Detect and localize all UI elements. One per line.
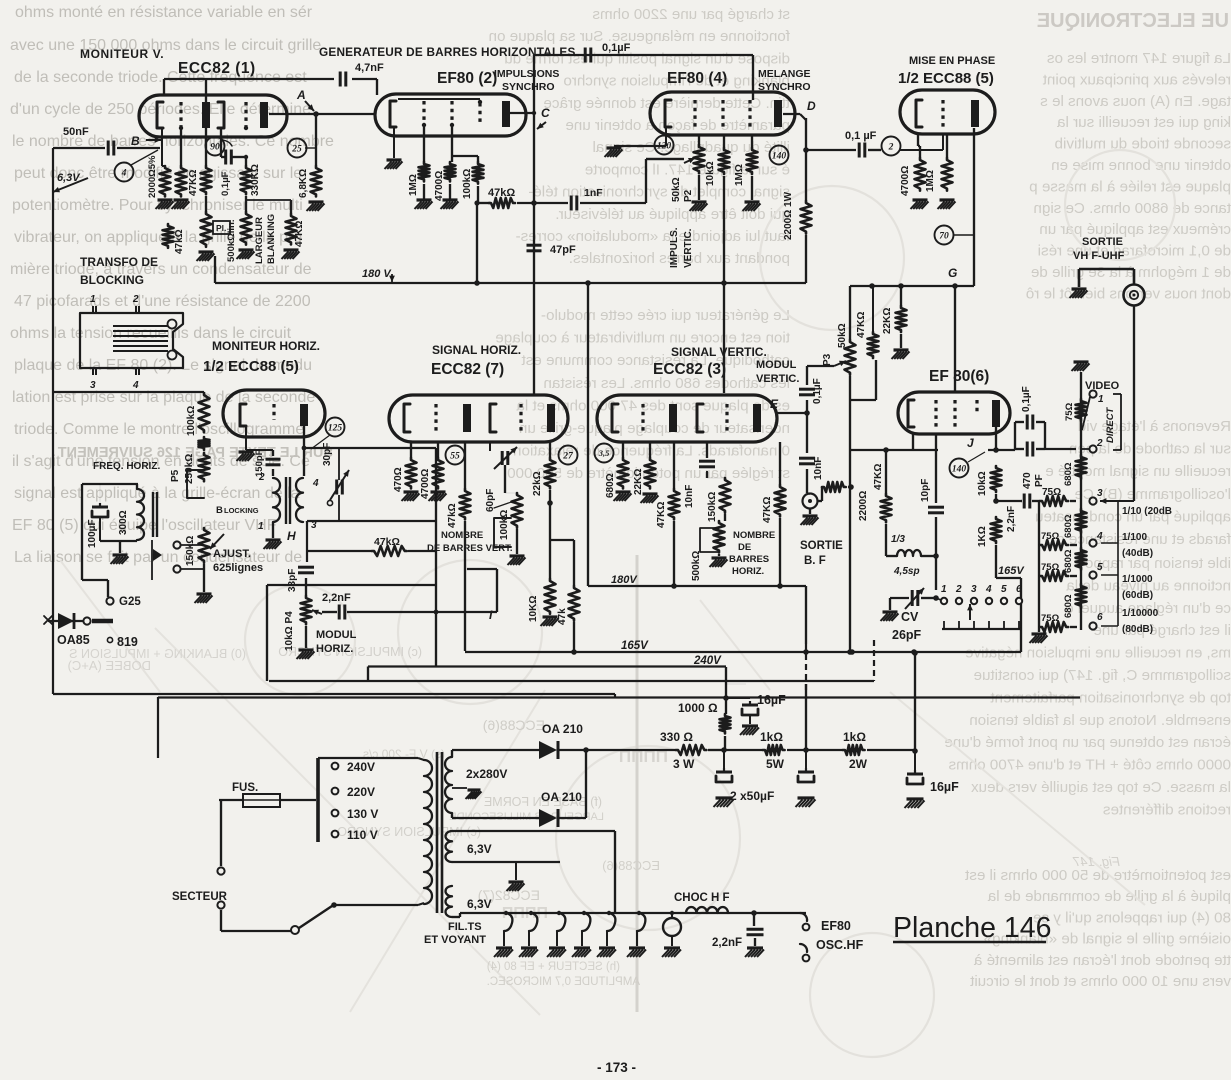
svg-text:250kΩ: 250kΩ xyxy=(184,454,195,484)
svg-text:TRANSFO DE: TRANSFO DE xyxy=(80,255,158,269)
svg-text:vers une 10 000 ohms et do: vers une 10 000 ohms et dont le circuit xyxy=(969,973,1231,990)
svg-text:2x280V: 2x280V xyxy=(466,767,507,781)
svg-text:ECC82 (7): ECC82 (7) xyxy=(431,361,504,378)
svg-text:2: 2 xyxy=(955,584,962,595)
svg-text:seconde triode du multiv: seconde triode du multivib xyxy=(1055,136,1231,153)
svg-text:4: 4 xyxy=(312,478,319,489)
svg-text:10nF: 10nF xyxy=(813,457,824,480)
svg-text:4700Ω: 4700Ω xyxy=(900,166,911,196)
svg-text:IMPULSIONS: IMPULSIONS xyxy=(494,68,559,80)
svg-text:75Ω: 75Ω xyxy=(1041,562,1060,573)
svg-text:Le générateur qui crée cet: Le générateur qui crée cette modulo- xyxy=(541,307,790,324)
svg-text:st chargé par une 2200 oh: st chargé par une 2200 ohms xyxy=(592,6,790,23)
svg-text:680Ω: 680Ω xyxy=(605,473,616,498)
svg-text:5W: 5W xyxy=(766,757,785,771)
svg-text:47KΩ: 47KΩ xyxy=(873,464,884,490)
svg-text:ECC82 (1): ECC82 (1) xyxy=(178,60,256,77)
svg-text:(h) SECTEUR + EF 80 (4): (h) SECTEUR + EF 80 (4) xyxy=(487,961,620,973)
svg-text:1/10 (20dB: 1/10 (20dB xyxy=(1122,506,1172,517)
svg-text:3: 3 xyxy=(971,584,977,595)
svg-text:é sur la figure 147. Il: é sur la figure 147. Il comporte xyxy=(585,161,790,178)
svg-text:A: A xyxy=(296,88,306,102)
svg-text:680Ω: 680Ω xyxy=(1063,462,1074,486)
svg-text:est potentiomètre de 50 000: est potentiomètre de 50 000 ohms il est xyxy=(964,867,1231,884)
svg-text:MISE EN PHASE: MISE EN PHASE xyxy=(909,55,995,67)
svg-text:2: 2 xyxy=(1096,438,1103,449)
svg-text:47pF: 47pF xyxy=(550,244,576,256)
svg-text:50nF: 50nF xyxy=(63,126,89,138)
svg-text:1: 1 xyxy=(258,521,264,532)
svg-text:SIGNAL VERTIC.: SIGNAL VERTIC. xyxy=(671,345,767,359)
svg-text:165V: 165V xyxy=(998,565,1025,577)
svg-text:50kΩ: 50kΩ xyxy=(671,177,682,202)
svg-text:2,2nF: 2,2nF xyxy=(322,592,351,604)
svg-text:MONITEUR HORIZ.: MONITEUR HORIZ. xyxy=(212,339,320,353)
svg-text:FREQ. HORIZ.: FREQ. HORIZ. xyxy=(93,461,160,472)
svg-text:47k: 47k xyxy=(557,608,568,625)
svg-text:1/10000: 1/10000 xyxy=(1122,608,1159,619)
svg-text:VERTIC.: VERTIC. xyxy=(756,373,799,385)
svg-text:(40dB): (40dB) xyxy=(1122,548,1153,559)
svg-text:165V: 165V xyxy=(621,640,649,652)
svg-text:470Ω: 470Ω xyxy=(393,467,404,492)
svg-text:180 V: 180 V xyxy=(362,268,392,280)
svg-text:king qui est recueilli sur la: king qui est recueilli sur la xyxy=(1057,114,1231,131)
svg-text:La figure 147 montre les os: La figure 147 montre les os xyxy=(1047,50,1231,67)
svg-text:10pF: 10pF xyxy=(920,479,931,502)
svg-text:4: 4 xyxy=(985,584,992,595)
svg-text:LOCKING: LOCKING xyxy=(224,506,259,515)
svg-text:EF80 (4): EF80 (4) xyxy=(667,70,727,87)
svg-text:ible tension par rappo: ible tension par rappo xyxy=(1085,555,1231,572)
svg-text:J: J xyxy=(967,436,974,450)
svg-text:2: 2 xyxy=(888,142,894,152)
svg-text:500kΩlin.: 500kΩlin. xyxy=(226,220,237,262)
svg-text:tance de 6800 ohms. Ce sign: tance de 6800 ohms. Ce sign xyxy=(1033,200,1231,217)
svg-text:illité du quadrillage. Ce: illité du quadrillage. Ce signal xyxy=(592,139,790,156)
svg-text:300Ω: 300Ω xyxy=(118,510,129,535)
svg-text:2: 2 xyxy=(132,294,139,305)
svg-text:MODUL: MODUL xyxy=(756,359,797,371)
svg-text:dont nous verrons bientôt le r: dont nous verrons bientôt le rô xyxy=(1026,285,1231,302)
svg-text:1MΩ: 1MΩ xyxy=(925,170,936,192)
svg-text:1MΩ: 1MΩ xyxy=(734,164,745,186)
svg-text:2,2nF: 2,2nF xyxy=(712,937,742,949)
svg-text:AJUST.: AJUST. xyxy=(213,548,251,560)
svg-text:plaque est reliée à la masse p: plaque est reliée à la masse p xyxy=(1029,178,1231,195)
svg-text:BLANKING: BLANKING xyxy=(266,214,277,264)
svg-text:DIRECT: DIRECT xyxy=(1105,406,1116,443)
svg-text:B. F: B. F xyxy=(804,555,826,567)
svg-text:ECC88(6): ECC88(6) xyxy=(602,858,660,873)
svg-text:BARRES: BARRES xyxy=(729,554,769,565)
svg-text:680Ω: 680Ω xyxy=(1063,594,1074,618)
svg-text:0,1µF: 0,1µF xyxy=(602,42,631,54)
svg-text:10nF: 10nF xyxy=(684,485,695,508)
svg-text:0 nanofarads. La fréquence de: 0 nanofarads. La fréquence de relaxation xyxy=(513,443,790,460)
svg-text:1kΩ: 1kΩ xyxy=(760,730,783,744)
svg-text:1MΩ: 1MΩ xyxy=(408,174,419,196)
svg-text:de la seconde triode. Cette fr: de la seconde triode. Cette fréquence es… xyxy=(14,69,307,86)
svg-text:180V: 180V xyxy=(611,574,638,586)
svg-text:scillogramme C, fig. 147): scillogramme C, fig. 147) qui constitue xyxy=(974,667,1231,684)
svg-text:rections différentes: rections différentes xyxy=(1103,801,1231,818)
svg-text:DE BARRES VERT.: DE BARRES VERT. xyxy=(427,543,513,554)
svg-text:125: 125 xyxy=(328,423,343,433)
svg-text:MONITEUR V.: MONITEUR V. xyxy=(80,47,164,61)
svg-text:faut lui adjoindre la «modulat: faut lui adjoindre la «modulation» corre… xyxy=(516,228,790,245)
svg-text:B: B xyxy=(131,134,140,148)
svg-text:1: 1 xyxy=(1098,394,1104,405)
svg-text:HORIZ.: HORIZ. xyxy=(732,566,764,577)
svg-text:22KΩ: 22KΩ xyxy=(882,308,893,334)
svg-text:33pF: 33pF xyxy=(287,569,298,592)
svg-text:Fig. 147: Fig. 147 xyxy=(1072,854,1120,869)
svg-text:47KΩ: 47KΩ xyxy=(188,170,199,196)
svg-text:500kΩ: 500kΩ xyxy=(691,551,702,581)
svg-text:CHOC H F: CHOC H F xyxy=(674,892,730,904)
svg-text:47 picofarads et d'une résista: 47 picofarads et d'une résistance de 220… xyxy=(14,293,311,310)
svg-text:FUS.: FUS. xyxy=(232,782,258,794)
svg-text:tte pentode dont l'écran e: tte pentode dont l'écran est alimenté à xyxy=(973,952,1231,969)
svg-text:OA 210: OA 210 xyxy=(542,722,583,736)
svg-text:3: 3 xyxy=(90,380,96,391)
svg-text:1kΩ: 1kΩ xyxy=(843,730,866,744)
svg-text:LARGEUR: LARGEUR xyxy=(254,217,265,264)
svg-text:10kΩ P4: 10kΩ P4 xyxy=(284,611,295,651)
svg-text:G25: G25 xyxy=(119,596,141,608)
svg-text:CV: CV xyxy=(901,610,919,624)
svg-text:(0) BLANKING + IMPULSION S: (0) BLANKING + IMPULSION S xyxy=(69,647,246,661)
svg-text:75Ω: 75Ω xyxy=(1042,487,1061,498)
svg-text:3: 3 xyxy=(1097,488,1103,499)
svg-text:écran est obtenue par un pont: écran est obtenue par un pont formé d'un… xyxy=(944,734,1231,751)
svg-text:1/3: 1/3 xyxy=(891,534,905,545)
svg-text:SORTIE: SORTIE xyxy=(800,540,843,552)
svg-text:GENERATEUR DE BARRES HORIZO: GENERATEUR DE BARRES HORIZONTALES xyxy=(319,45,576,59)
svg-text:1KΩ: 1KΩ xyxy=(977,526,988,547)
svg-text:DE: DE xyxy=(738,542,751,553)
svg-text:240V: 240V xyxy=(347,760,375,774)
svg-text:47kΩ: 47kΩ xyxy=(488,187,515,199)
svg-text:2W: 2W xyxy=(849,757,868,771)
svg-text:(60dB): (60dB) xyxy=(1122,590,1153,601)
svg-text:16µF: 16µF xyxy=(930,780,959,794)
svg-text:MODUL: MODUL xyxy=(316,629,357,641)
svg-text:1nF: 1nF xyxy=(584,187,603,199)
svg-text:Revenons à l'étage vid: Revenons à l'étage vid xyxy=(1078,418,1231,435)
svg-text:625lignes: 625lignes xyxy=(213,562,263,574)
svg-text:relevés aux principaux point: relevés aux principaux point xyxy=(1042,71,1231,88)
svg-text:47KΩ: 47KΩ xyxy=(294,221,305,247)
svg-text:paramètre de façon à obten: paramètre de façon à obtenir une xyxy=(565,117,790,134)
svg-text:B: B xyxy=(216,505,223,516)
svg-text:1/1000: 1/1000 xyxy=(1122,574,1153,585)
svg-text:140: 140 xyxy=(952,464,967,474)
svg-text:ECC82 (3): ECC82 (3) xyxy=(653,361,726,378)
svg-text:signal complet de synchronisat: signal complet de synchronisation télé- xyxy=(528,184,790,201)
svg-text:Planche 146: Planche 146 xyxy=(893,912,1051,944)
svg-text:VH F-UHF: VH F-UHF xyxy=(1073,250,1125,262)
svg-text:SUR LE TEXTE PAGE 126 SUIVREME: SUR LE TEXTE PAGE 126 SUIVREMENT xyxy=(58,445,333,461)
svg-text:fonctionne en mélangeuse. Sur: fonctionne en mélangeuse. Sur sa plaque … xyxy=(489,28,790,45)
svg-text:OSC.HF: OSC.HF xyxy=(816,938,864,952)
svg-text:4: 4 xyxy=(1096,531,1103,542)
svg-text:EF80 (2): EF80 (2) xyxy=(437,70,497,87)
svg-text:22KΩ: 22KΩ xyxy=(633,469,644,495)
svg-text:P2: P2 xyxy=(683,189,694,202)
svg-text:100kΩ: 100kΩ xyxy=(462,169,473,199)
svg-text:1/2 ECC88 (5): 1/2 ECC88 (5) xyxy=(203,358,299,375)
svg-text:6: 6 xyxy=(1016,584,1022,595)
svg-text:140: 140 xyxy=(772,151,787,161)
svg-text:1: 1 xyxy=(941,584,947,595)
svg-text:25: 25 xyxy=(291,144,302,154)
svg-text:G: G xyxy=(948,266,957,280)
svg-text:3,5: 3,5 xyxy=(598,448,610,458)
svg-text:4,5sp: 4,5sp xyxy=(893,566,920,577)
svg-text:1/2 ECC88 (5): 1/2 ECC88 (5) xyxy=(898,70,994,87)
svg-text:10kΩ: 10kΩ xyxy=(977,471,988,496)
svg-text:330KΩ: 330KΩ xyxy=(250,164,261,196)
svg-text:ECC88(6): ECC88(6) xyxy=(483,717,545,733)
svg-text:pliqué à la grille de com: pliqué à la grille de commande de la xyxy=(987,888,1231,905)
svg-text:NOMBRE: NOMBRE xyxy=(441,530,483,541)
svg-text:30pF: 30pF xyxy=(322,443,333,466)
svg-text:47kΩ: 47kΩ xyxy=(174,229,185,254)
svg-text:120: 120 xyxy=(657,141,672,151)
svg-text:130 V: 130 V xyxy=(347,807,378,821)
svg-text:C: C xyxy=(541,106,550,120)
svg-text:SORTIE: SORTIE xyxy=(1082,236,1123,248)
svg-text:680Ω: 680Ω xyxy=(1063,549,1074,573)
svg-text:0,1µF: 0,1µF xyxy=(1021,386,1032,412)
svg-text:P5: P5 xyxy=(170,469,181,482)
svg-text:H: H xyxy=(287,529,296,543)
svg-text:0,1 µF: 0,1 µF xyxy=(845,130,877,142)
svg-text:47KΩ: 47KΩ xyxy=(656,502,667,528)
svg-text:SIGNAL HORIZ.: SIGNAL HORIZ. xyxy=(432,343,521,357)
svg-text:0,1µF: 0,1µF xyxy=(812,378,823,404)
svg-text:1000 Ω: 1000 Ω xyxy=(678,701,718,715)
svg-text:22kΩ: 22kΩ xyxy=(532,471,543,496)
svg-text:SYNCHRO: SYNCHRO xyxy=(502,81,555,93)
svg-text:OA85: OA85 xyxy=(57,633,90,647)
svg-text:150kΩ: 150kΩ xyxy=(185,536,196,566)
svg-text:EF80: EF80 xyxy=(821,919,851,933)
svg-text:50kΩ: 50kΩ xyxy=(837,323,848,348)
svg-text:la masse. Ce top est aigu: la masse. Ce top est aiguillé vers deux xyxy=(971,779,1231,796)
svg-text:5: 5 xyxy=(1001,584,1007,595)
svg-text:16µF: 16µF xyxy=(757,693,786,707)
svg-text:- 173 -: - 173 - xyxy=(597,1060,636,1075)
svg-text:80 (4) qui rappelons qu'il: 80 (4) qui rappelons qu'il y se xyxy=(1033,909,1231,926)
svg-text:75Ω: 75Ω xyxy=(1041,613,1060,624)
svg-text:de 1 mégohm à la 3e grille de: de 1 mégohm à la 3e grille de xyxy=(1031,264,1231,281)
svg-text:2200Ω 1W: 2200Ω 1W xyxy=(783,191,794,240)
svg-text:IMPULS.: IMPULS. xyxy=(669,227,680,268)
svg-text:6: 6 xyxy=(1097,612,1103,623)
svg-text:UE ELECTRONIQUE: UE ELECTRONIQUE xyxy=(1037,10,1229,32)
svg-text:4700Ω: 4700Ω xyxy=(420,469,431,499)
svg-text:tage. En (A) nous avons le s: tage. En (A) nous avons le s xyxy=(1040,93,1231,110)
svg-text:NOMBRE: NOMBRE xyxy=(733,530,775,541)
svg-text:10KΩ: 10KΩ xyxy=(528,596,539,622)
svg-text:75Ω: 75Ω xyxy=(1064,402,1075,421)
svg-text:PF: PF xyxy=(1034,474,1045,487)
svg-text:4: 4 xyxy=(132,380,139,391)
svg-text:il est chargé par une: il est chargé par une xyxy=(1093,622,1231,639)
svg-text:OA 210: OA 210 xyxy=(541,790,582,804)
svg-text:100kΩ: 100kΩ xyxy=(186,406,197,436)
svg-text:90: 90 xyxy=(210,142,220,152)
svg-text:MELANGE: MELANGE xyxy=(758,68,811,80)
svg-text:75Ω: 75Ω xyxy=(1041,531,1060,542)
svg-text:EF 80(6): EF 80(6) xyxy=(929,368,989,385)
svg-text:2200Ω: 2200Ω xyxy=(858,491,869,521)
svg-text:VIDEO: VIDEO xyxy=(1085,380,1120,392)
svg-text:6,3V: 6,3V xyxy=(467,897,492,911)
svg-text:HORIZ.: HORIZ. xyxy=(316,643,353,655)
svg-text:100µF: 100µF xyxy=(87,519,98,548)
svg-text:47KΩ: 47KΩ xyxy=(762,497,773,523)
svg-text:FIL.TS: FIL.TS xyxy=(448,921,482,933)
svg-text:10kΩ: 10kΩ xyxy=(705,161,716,186)
svg-text:70: 70 xyxy=(939,231,949,241)
svg-text:(80dB): (80dB) xyxy=(1122,624,1153,635)
svg-text:SECTEUR: SECTEUR xyxy=(172,891,228,903)
svg-text:2: 2 xyxy=(258,472,265,483)
svg-text:ensemble. Notons que la fa: ensemble. Notons que la faible tension xyxy=(969,712,1231,729)
svg-text:D: D xyxy=(807,99,816,113)
svg-text:ohms monté en résistance varia: ohms monté en résistance variable en sér xyxy=(15,4,313,21)
svg-text:3 W: 3 W xyxy=(673,757,695,771)
svg-text:2000Ω5%: 2000Ω5% xyxy=(147,155,158,198)
svg-text:4700Ω: 4700Ω xyxy=(434,171,445,201)
svg-text:obtenir une bonne mise: obtenir une bonne mise en xyxy=(1051,157,1231,174)
svg-text:4,7nF: 4,7nF xyxy=(355,62,384,74)
svg-text:47KΩ: 47KΩ xyxy=(856,312,867,338)
svg-text:0,1µF: 0,1µF xyxy=(220,171,231,196)
svg-text:330 Ω: 330 Ω xyxy=(660,730,693,744)
svg-text:110 V: 110 V xyxy=(347,828,378,842)
svg-text:ET VOYANT: ET VOYANT xyxy=(424,934,486,946)
svg-text:220V: 220V xyxy=(347,785,375,799)
svg-text:470: 470 xyxy=(1022,472,1033,489)
svg-text:2 x50µF: 2 x50µF xyxy=(730,789,774,803)
svg-text:240V: 240V xyxy=(693,655,722,667)
svg-text:1/100: 1/100 xyxy=(1122,532,1147,543)
svg-text:150kΩ: 150kΩ xyxy=(707,492,718,522)
svg-text:2,2nF: 2,2nF xyxy=(1006,506,1017,532)
svg-text:819: 819 xyxy=(117,635,138,649)
svg-text:100kΩ: 100kΩ xyxy=(499,510,510,540)
svg-text:47kΩ: 47kΩ xyxy=(374,536,400,548)
svg-text:AMPLITUDE 0,7 MICROSEC.: AMPLITUDE 0,7 MICROSEC. xyxy=(487,976,640,988)
svg-text:5: 5 xyxy=(1097,562,1103,573)
svg-text:47kΩ: 47kΩ xyxy=(447,503,458,528)
svg-text:Pl.: Pl. xyxy=(216,223,226,233)
svg-text:26pF: 26pF xyxy=(892,628,922,642)
svg-text:6,8KΩ: 6,8KΩ xyxy=(298,169,309,198)
svg-text:55: 55 xyxy=(450,451,460,461)
svg-text:VERTIC.: VERTIC. xyxy=(683,228,694,268)
svg-text:P3: P3 xyxy=(822,353,833,366)
svg-text:BLOCKING: BLOCKING xyxy=(80,273,144,287)
svg-text:1: 1 xyxy=(90,294,96,305)
svg-text:4: 4 xyxy=(121,168,127,178)
svg-text:avec une 150 000 ohms dans le: avec une 150 000 ohms dans le circuit gr… xyxy=(10,37,321,54)
svg-text:27: 27 xyxy=(562,451,574,461)
svg-text:680Ω: 680Ω xyxy=(1063,514,1074,538)
svg-text:6,3V: 6,3V xyxy=(467,842,492,856)
svg-text:0000 ohms côté + HT et d'une: 0000 ohms côté + HT et d'une 4700 ohms xyxy=(948,757,1231,774)
